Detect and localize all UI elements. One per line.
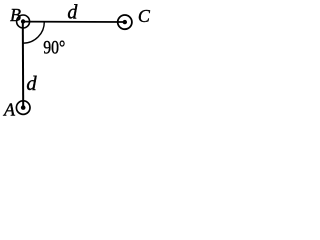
svg-text:90°: 90° bbox=[43, 39, 65, 59]
svg-text:A: A bbox=[3, 99, 16, 119]
node C bbox=[118, 15, 132, 29]
node B bbox=[17, 15, 30, 28]
svg-text:d: d bbox=[26, 73, 37, 95]
angle arc 90 bbox=[23, 22, 44, 44]
svg-text:B: B bbox=[10, 5, 21, 25]
svg-text:d: d bbox=[67, 2, 78, 24]
svg-text:C: C bbox=[138, 6, 151, 26]
wire B-A bbox=[22, 22, 24, 108]
node A bbox=[16, 101, 30, 115]
wire B-C bbox=[23, 21, 125, 23]
